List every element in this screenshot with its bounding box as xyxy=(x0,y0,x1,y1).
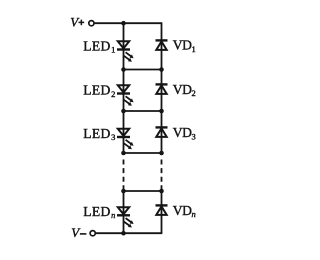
svg-text:LED1: LED1 xyxy=(83,38,116,54)
svg-text:LED2: LED2 xyxy=(83,83,116,99)
LED LEDn xyxy=(117,207,134,227)
wire left rail segment 3 xyxy=(123,111,125,155)
wire right rail segment 4 xyxy=(161,191,163,233)
wire rung 4 xyxy=(124,190,162,192)
node rung3-right junction xyxy=(159,151,164,156)
LED LED3 xyxy=(117,129,134,149)
svg-text:VDn: VDn xyxy=(173,203,196,219)
node rung4-left junction xyxy=(121,189,126,194)
LED LED2 xyxy=(117,85,134,105)
wire left rail segment 4 xyxy=(123,191,125,233)
svg-text:LEDn: LEDn xyxy=(83,204,116,220)
node bottom-left junction xyxy=(121,231,126,236)
node rung3-left junction xyxy=(121,151,126,156)
node rung1-right junction xyxy=(159,67,164,72)
wire rung 1 xyxy=(124,69,162,71)
wire right rail dashed segment xyxy=(161,160,163,190)
wire bottom (V- to right rail) xyxy=(96,232,162,234)
svg-text:VD3: VD3 xyxy=(173,125,196,141)
LED LED1 xyxy=(117,41,134,61)
node rung4-right junction xyxy=(159,189,164,194)
svg-text:LED3: LED3 xyxy=(83,126,116,142)
wire top (V+ to right rail) xyxy=(95,22,163,24)
node top-left junction xyxy=(121,21,126,26)
wire right rail segment 1 xyxy=(161,23,163,69)
wire left rail dashed segment xyxy=(123,160,125,190)
svg-text:V: V xyxy=(71,225,81,240)
svg-text:VD1: VD1 xyxy=(173,38,196,54)
wire left rail segment 2 xyxy=(123,70,125,112)
terminal V+ xyxy=(89,21,94,26)
wire right rail segment 3 xyxy=(161,111,163,155)
diode VD1 xyxy=(156,40,168,50)
node rung2-left junction xyxy=(121,109,126,114)
terminal V- xyxy=(90,231,95,236)
diode VD2 xyxy=(156,84,168,94)
svg-text:VD2: VD2 xyxy=(173,82,196,98)
wire rung 3 xyxy=(124,152,162,154)
node rung1-left junction xyxy=(121,67,126,72)
wire left rail segment 1 xyxy=(123,23,125,69)
node rung2-right junction xyxy=(159,109,164,114)
diode VD3 xyxy=(156,127,168,136)
wire right rail segment 2 xyxy=(161,70,163,112)
wire rung 2 xyxy=(124,110,162,112)
diode VDn xyxy=(156,205,168,215)
